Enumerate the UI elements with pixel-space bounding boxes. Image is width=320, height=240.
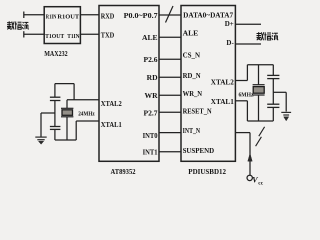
wire P2.7-RESET_N bbox=[159, 111, 181, 113]
char 据 bbox=[264, 32, 271, 40]
capacitor C3 bbox=[267, 74, 279, 76]
ground symbol right bbox=[281, 112, 291, 120]
wire bus P0-DATA bbox=[159, 14, 181, 16]
wire INT1-SUSPEND bbox=[159, 151, 181, 153]
char 数 bbox=[7, 21, 14, 29]
svg-text:XTAL1: XTAL1 bbox=[211, 98, 234, 106]
wire cap rail Y2 top bbox=[272, 65, 274, 76]
svg-text:RD: RD bbox=[147, 73, 158, 82]
capacitor C1 bbox=[50, 96, 61, 98]
svg-text:TXD: TXD bbox=[101, 31, 115, 40]
wire XTAL1 (U3) bbox=[235, 100, 247, 102]
svg-text:D+: D+ bbox=[225, 20, 234, 28]
svg-text:WR: WR bbox=[145, 91, 159, 100]
slash marks bbox=[259, 127, 265, 136]
svg-text:WR_N: WR_N bbox=[183, 89, 203, 98]
char 据 bbox=[15, 22, 22, 30]
wire left rail Y2 top bbox=[246, 65, 248, 81]
char 流 bbox=[22, 22, 29, 29]
svg-text:PDIUSBD12: PDIUSBD12 bbox=[188, 167, 226, 176]
wire top rail Y2 bbox=[247, 64, 273, 66]
tick serial in 2 bbox=[23, 31, 25, 37]
svg-text:MAX232: MAX232 bbox=[44, 49, 68, 58]
wire INT0-INT_N bbox=[159, 132, 181, 134]
wire XTAL1 (U2) bbox=[76, 120, 99, 122]
svg-text:RESET_N: RESET_N bbox=[183, 108, 213, 116]
wire ground tap left bbox=[41, 112, 55, 114]
wire jog down to bottom rail bbox=[75, 121, 77, 140]
svg-text:INT0: INT0 bbox=[143, 131, 158, 140]
wire bottom rail Y1 bbox=[55, 139, 76, 141]
svg-text:R1IN: R1IN bbox=[46, 14, 57, 21]
wire top rail Y1 bbox=[55, 83, 74, 85]
crystal Y2 plates bbox=[253, 84, 265, 86]
svg-text:INT1: INT1 bbox=[143, 148, 158, 157]
wire ground tap right bbox=[273, 91, 286, 93]
capacitor C4 bbox=[267, 103, 279, 105]
wire serial in 1 bbox=[24, 14, 44, 16]
wire left rail Y2 bottom bbox=[246, 101, 248, 121]
svg-text:P2.7: P2.7 bbox=[143, 109, 157, 118]
U2 AT89S52 box bbox=[99, 6, 159, 162]
crystal Y1 body bbox=[62, 110, 73, 116]
wire crystal rail Y2 top bbox=[258, 65, 260, 85]
crystal Y1 plates bbox=[61, 107, 73, 109]
svg-text:INT_N: INT_N bbox=[183, 126, 201, 135]
char 流 bbox=[272, 33, 279, 40]
wire bottom rail Y2 bbox=[247, 120, 273, 122]
paper background bbox=[0, 0, 300, 195]
crystal Y2 body bbox=[253, 87, 264, 94]
wire crystal rail Y1 top bbox=[66, 100, 68, 109]
wire XTAL2 (U3) bbox=[235, 80, 247, 82]
wire Vcc horizontal bbox=[235, 132, 250, 134]
wire RD-RD_N bbox=[159, 76, 181, 78]
svg-text:RXD: RXD bbox=[101, 11, 115, 20]
wire serial in 2 bbox=[24, 33, 44, 35]
svg-text:24MHz: 24MHz bbox=[78, 110, 95, 117]
U3 PDIUSBD12 box bbox=[181, 6, 235, 162]
svg-text:AT89352: AT89352 bbox=[111, 167, 136, 176]
wire cap rail top bbox=[54, 84, 56, 98]
wire below C2 bbox=[54, 129, 56, 140]
char 数 bbox=[257, 32, 264, 40]
wire below C4 bbox=[272, 107, 274, 121]
wire P2.6-CS_N bbox=[159, 58, 181, 60]
svg-text:P2.6: P2.6 bbox=[143, 55, 157, 64]
wire XTAL2 (U2) bbox=[67, 99, 99, 101]
tick serial in 1 bbox=[23, 12, 25, 19]
ground symbol left bbox=[35, 137, 46, 144]
svg-text:6MHz: 6MHz bbox=[239, 91, 254, 98]
wire D+ bbox=[235, 23, 261, 25]
svg-text:SUSPEND: SUSPEND bbox=[183, 147, 215, 155]
wire WR-WR_N bbox=[159, 94, 181, 96]
wire T1IN-TXD bbox=[80, 33, 99, 35]
svg-text:cc: cc bbox=[258, 181, 263, 187]
arrow on Vcc line bbox=[248, 154, 252, 162]
wire between caps bbox=[54, 101, 56, 127]
capacitor C2 bbox=[50, 126, 61, 128]
Vcc circle bbox=[247, 175, 252, 180]
svg-text:ALE: ALE bbox=[142, 33, 158, 42]
svg-text:D-: D- bbox=[226, 39, 234, 47]
wire R1OUT-RXD bbox=[80, 14, 99, 16]
svg-text:T1OUT: T1OUT bbox=[45, 33, 65, 40]
svg-text:DATA0~DATA7: DATA0~DATA7 bbox=[183, 13, 234, 20]
svg-text:ALE: ALE bbox=[183, 28, 199, 37]
wire crystal rail Y2 bottom bbox=[258, 95, 260, 121]
U1 MAX232 box bbox=[44, 7, 80, 44]
svg-text:XTAL2: XTAL2 bbox=[211, 79, 234, 87]
right chinese label: 数据流 bbox=[257, 32, 279, 40]
bus slash bbox=[166, 6, 174, 23]
svg-text:XTAL2: XTAL2 bbox=[101, 99, 122, 108]
left chinese label: 数据流 bbox=[7, 21, 29, 29]
svg-text:T1IN: T1IN bbox=[67, 33, 80, 40]
svg-text:CS_N: CS_N bbox=[183, 50, 201, 59]
wire D- bbox=[235, 43, 261, 45]
wire Vcc vertical bbox=[249, 133, 251, 176]
svg-text:RD_N: RD_N bbox=[183, 71, 201, 80]
svg-text:XTAL1: XTAL1 bbox=[101, 120, 122, 129]
svg-text:R1OUT: R1OUT bbox=[57, 14, 79, 21]
wire jog up to top rail bbox=[73, 84, 75, 100]
wire ALE bbox=[159, 36, 181, 38]
svg-text:P0.0~P0.7: P0.0~P0.7 bbox=[124, 12, 158, 20]
wire between C3 C4 bbox=[272, 79, 274, 105]
wire crystal rail Y1 bottom bbox=[66, 117, 68, 140]
